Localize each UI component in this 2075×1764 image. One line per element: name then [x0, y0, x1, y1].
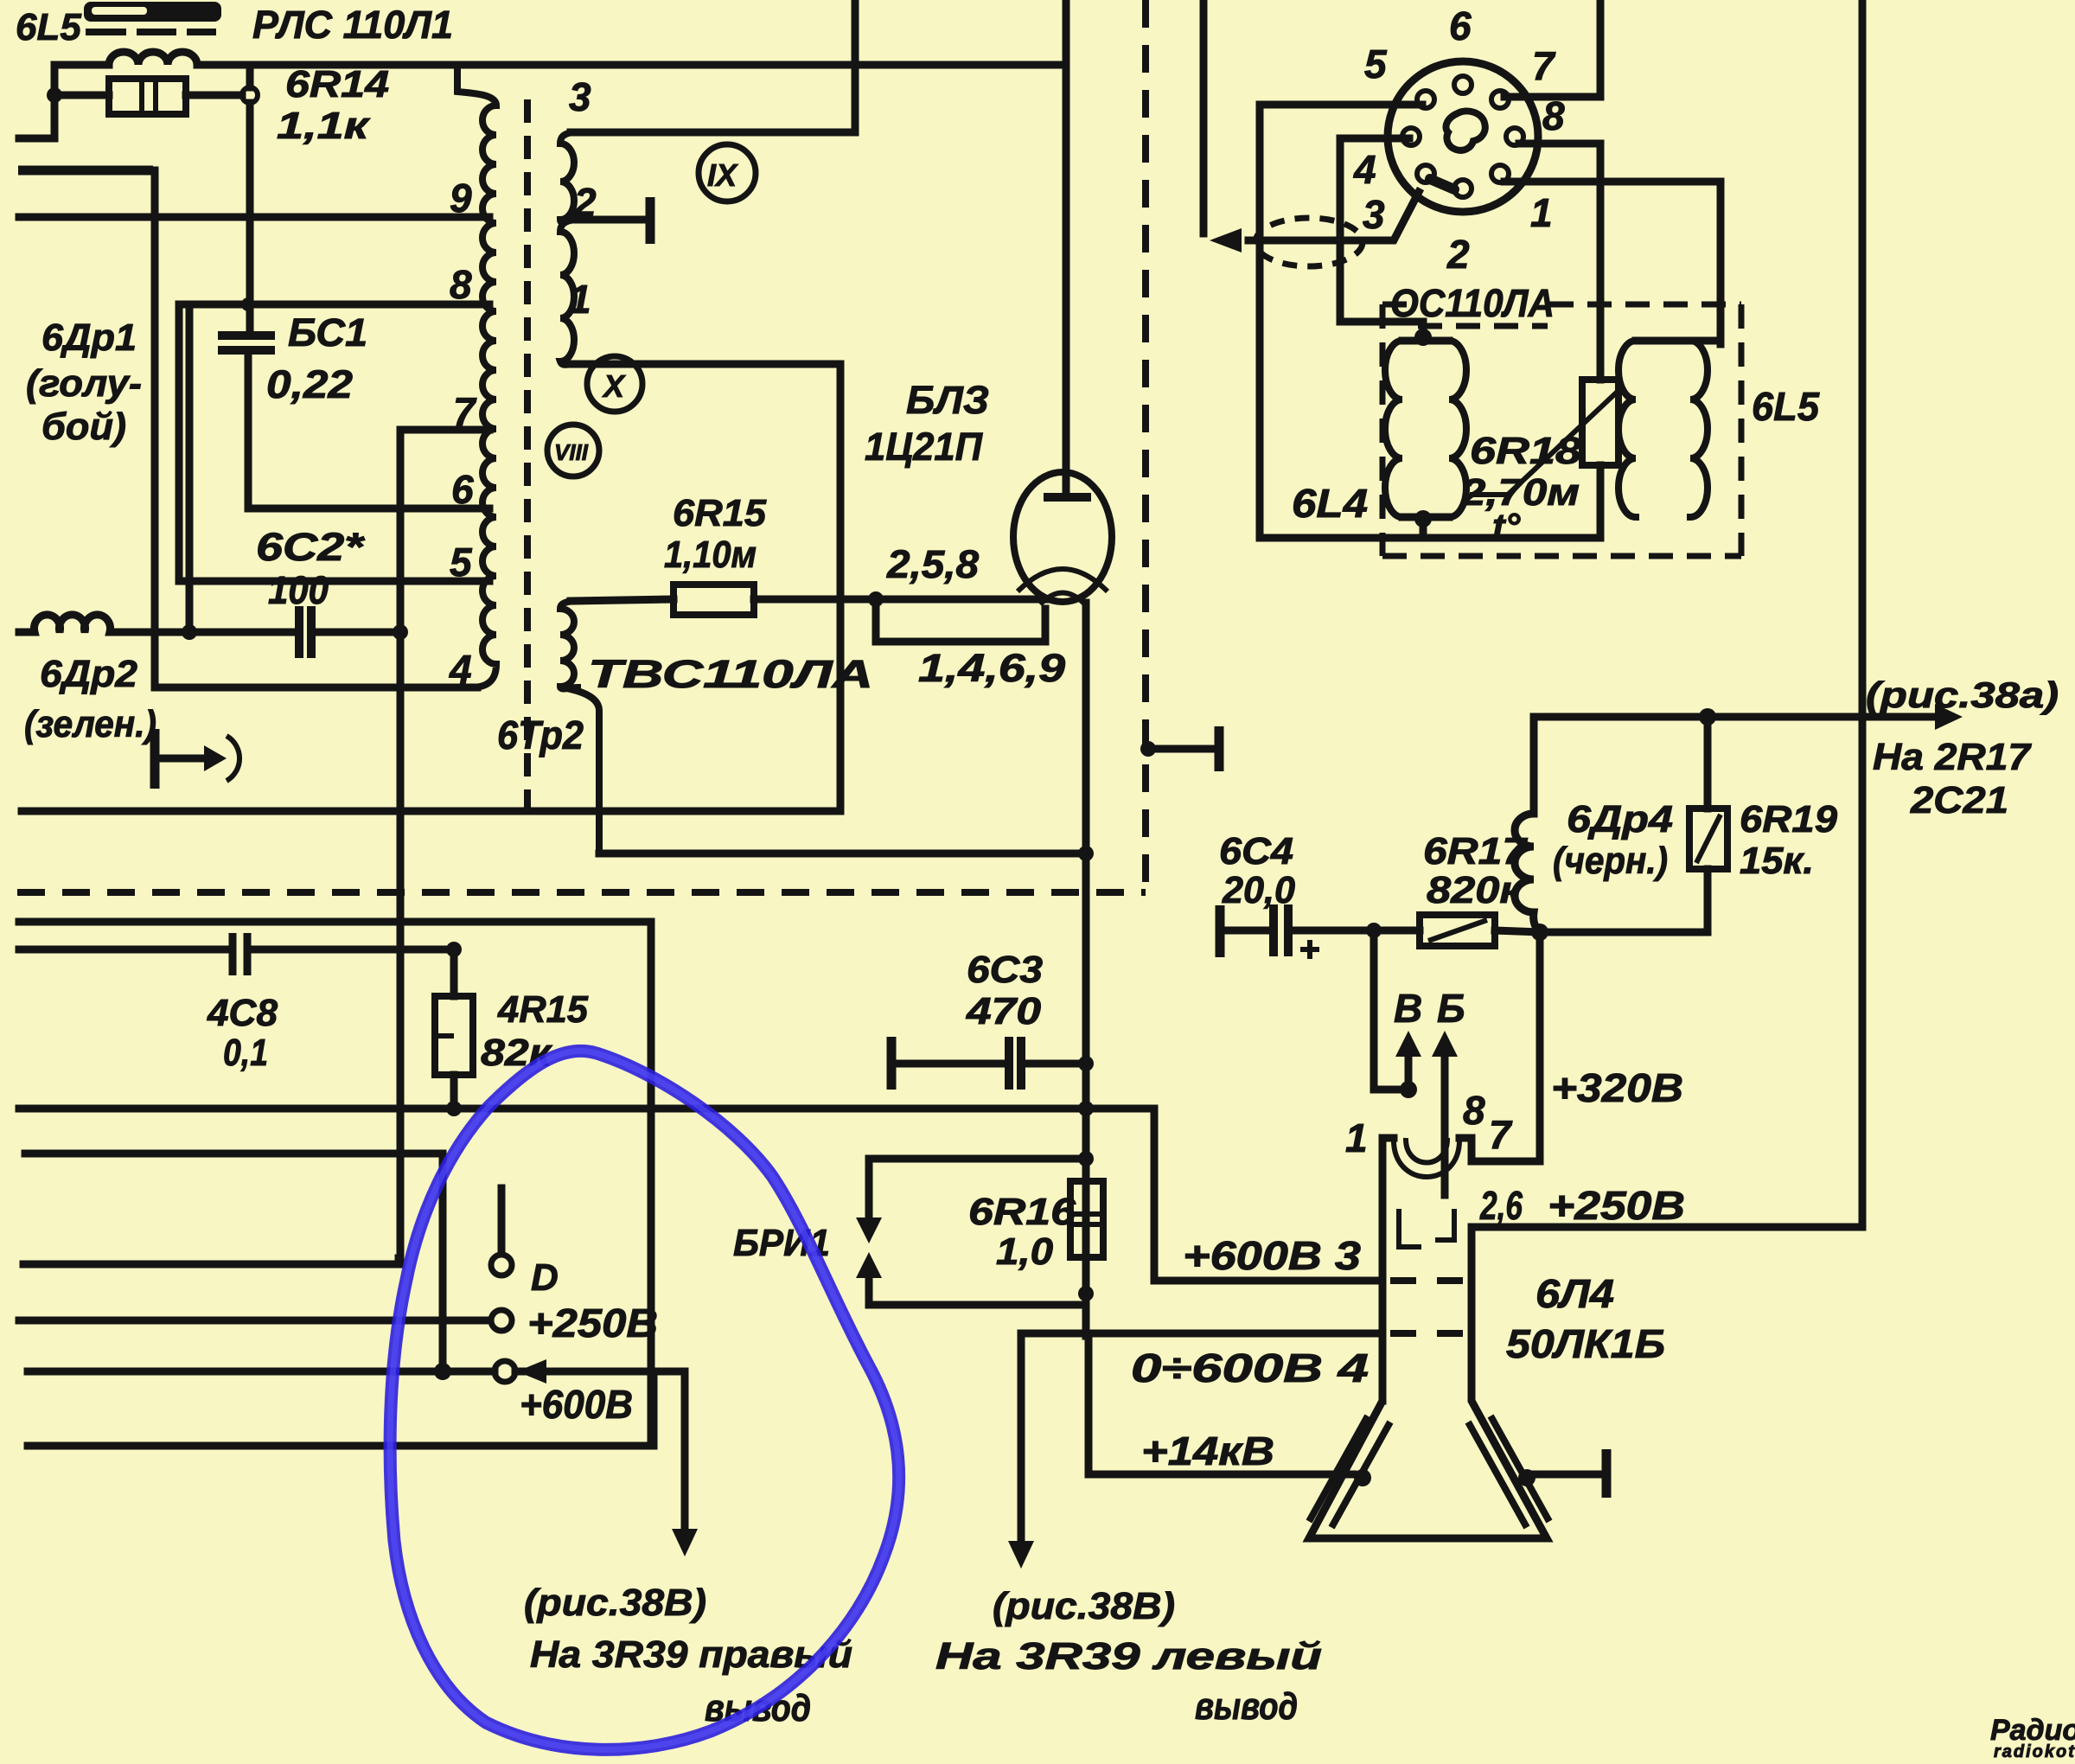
junction 6C1 top on y352	[241, 297, 255, 311]
svg-text:6Др1: 6Др1	[41, 316, 137, 359]
svg-text:4: 4	[449, 647, 472, 692]
svg-text:3: 3	[1363, 192, 1385, 237]
CRT screen slants right	[1470, 1419, 1548, 1524]
svg-text:6R15: 6R15	[673, 492, 767, 534]
svg-text:8: 8	[450, 262, 472, 307]
svg-text:50ЛК1Б: 50ЛК1Б	[1506, 1321, 1665, 1366]
CRT 6Л4 neck	[1309, 1138, 1547, 1538]
wire vertical x207 (pin8 loop)	[176, 304, 183, 581]
svg-text:5: 5	[450, 540, 473, 585]
wire pin1 right then down x972	[571, 364, 840, 811]
wire vertical x756 segment	[650, 1371, 658, 1446]
svg-text:9: 9	[450, 176, 472, 220]
svg-text:6L5: 6L5	[16, 6, 81, 48]
wire pin5 horizontal y672	[179, 578, 489, 585]
inductor 6Др2 coil on y731	[19, 615, 189, 632]
svg-text:20,0: 20,0	[1222, 869, 1295, 911]
svg-text:6С4: 6С4	[1219, 830, 1293, 872]
dashed separator vertical x1325 + horizontal y1032	[1142, 0, 1149, 892]
resistor 6R16 (on cathode line)	[1070, 1181, 1103, 1257]
wire long y1282 (+600V rail to CRT pin3)	[19, 1109, 1382, 1281]
wire pin2 stub and T terminal	[571, 197, 650, 244]
wire y1527 (+250V rail)	[19, 1317, 489, 1325]
transformer core (dashed)	[524, 99, 531, 817]
CRT anode dot left	[1354, 1469, 1371, 1486]
resistor 6R17 (adjustable)	[1420, 915, 1540, 946]
tube 6Л3 envelope	[1013, 472, 1112, 602]
wire pin5 left and down x1457	[1260, 105, 1422, 538]
svg-text:0÷600В 4: 0÷600В 4	[1131, 1345, 1369, 1390]
wire pin4 left and down x1550	[1340, 138, 1423, 341]
svg-text:В: В	[1394, 986, 1422, 1031]
CRT grid brackets	[1399, 1209, 1454, 1247]
spark gap БРИ1 loop	[856, 1159, 1086, 1305]
terminal +250В circle	[491, 1310, 512, 1331]
blue hand-drawn loop	[390, 1051, 899, 1749]
wire pin3 to top vertical	[571, 0, 855, 132]
wire long y1672	[28, 1442, 654, 1450]
junction cathode y987	[1078, 846, 1094, 861]
svg-text:1: 1	[1530, 190, 1553, 235]
svg-text:1,10м: 1,10м	[664, 534, 757, 576]
tube socket ОС110ЛА outer circle	[1388, 61, 1538, 212]
junction 4R15 top	[446, 942, 462, 957]
svg-text:+250В: +250В	[1548, 1183, 1685, 1228]
svg-text:вывод: вывод	[1195, 1685, 1298, 1728]
wire vertical x219 (6С2 branch)	[186, 306, 194, 632]
tube 6Л3 anode bar	[1044, 493, 1091, 502]
terminal T symbol on dashed line (right)	[1140, 726, 1219, 771]
wire +14kV box	[1089, 1333, 1353, 1474]
svg-text:+250В: +250В	[527, 1301, 658, 1345]
socket key boss	[1446, 111, 1484, 150]
svg-text:1: 1	[569, 277, 591, 322]
svg-text:6С2*: 6С2*	[256, 525, 366, 569]
CRT anode dot right + terminal	[1518, 1469, 1535, 1486]
CRT screen slants left	[1311, 1419, 1389, 1524]
svg-text:(рис.38а): (рис.38а)	[1866, 674, 2059, 715]
coil L (damper) top-left	[54, 52, 1066, 65]
svg-text:6Л4: 6Л4	[1535, 1271, 1614, 1316]
svg-text:Б: Б	[1437, 986, 1465, 1031]
socket pins (8 holes)	[1402, 76, 1523, 197]
svg-text:4С8: 4С8	[207, 992, 278, 1034]
svg-text:БС1: БС1	[288, 310, 367, 355]
svg-text:1,1к: 1,1к	[277, 105, 371, 147]
svg-text:IX: IX	[707, 157, 738, 193]
inductor 6L4	[1385, 341, 1466, 517]
svg-text:1Ц21П: 1Ц21П	[865, 425, 984, 469]
wire y622 (pin5 to 6R18 bottom)	[1260, 534, 1600, 542]
wire pin3 diagonal + arrow from x1392	[1248, 192, 1419, 240]
wire pin7 up	[1504, 0, 1600, 97]
wire pin6 horizontal y588	[248, 505, 489, 513]
svg-text:820к: 820к	[1427, 869, 1524, 911]
arrow into +600В terminal	[517, 1359, 546, 1384]
svg-text:6Тр2: 6Тр2	[497, 713, 584, 757]
wire y1462	[23, 1258, 399, 1264]
tube 6Л3 cathode arcs	[1018, 569, 1108, 591]
svg-text:3: 3	[569, 74, 591, 119]
wire y987 heater bottom to cathode	[599, 850, 1086, 858]
wire pin2,6 +250В rail	[1472, 1224, 1862, 1231]
svg-text:6С3: 6С3	[967, 949, 1043, 991]
arrow (рис.38а)	[1935, 704, 1963, 730]
wire stub left of node	[19, 65, 54, 138]
junction filament node	[868, 591, 884, 607]
wire y829 node rail	[1534, 713, 1935, 721]
svg-text:7: 7	[1489, 1112, 1513, 1157]
junction 6R19 top	[1699, 708, 1716, 725]
capacitor 4С8	[19, 933, 454, 975]
inductor 6L5 (top-left photo-negative bar)	[84, 2, 221, 35]
svg-text:РЛС 110Л1: РЛС 110Л1	[252, 3, 453, 47]
wire vertical x179 to transformer pin4 wire	[151, 170, 159, 687]
capacitor 6С2	[189, 606, 400, 658]
wire pin8 horizontal y352	[179, 301, 489, 309]
svg-text:4: 4	[1353, 147, 1376, 192]
junction 6С3 at cathode	[1078, 1056, 1094, 1071]
transformer secondary winding (pins 3-2-1)	[560, 132, 576, 365]
svg-text:VIII: VIII	[554, 439, 589, 465]
svg-text:(черн.): (черн.)	[1553, 840, 1668, 882]
svg-text:2С21: 2С21	[1910, 779, 2008, 821]
wire arrow shaft to рис.38В (right lead)	[681, 1371, 689, 1529]
junction 6L4 bottom	[1414, 510, 1432, 527]
svg-text:4R15: 4R15	[497, 988, 589, 1031]
svg-text:На 2R17: На 2R17	[1873, 736, 2033, 778]
capacitor 6С3 with T terminal	[891, 1037, 1086, 1090]
wire vertical x753	[648, 922, 655, 1446]
junction 6С4/6R17	[1366, 923, 1382, 938]
svg-text:+600В: +600В	[520, 1382, 633, 1427]
svg-text:470: 470	[966, 990, 1042, 1032]
wire pin7 horizontal y497	[400, 426, 489, 434]
svg-text:6Др2: 6Др2	[40, 653, 138, 695]
svg-text:t°: t°	[1492, 506, 1521, 548]
wire long horizontal y197	[18, 166, 153, 176]
svg-text:+320В: +320В	[1551, 1065, 1683, 1110]
svg-text:(рис.38В): (рис.38В)	[993, 1585, 1175, 1627]
wire node B up to top wire	[246, 65, 254, 87]
junction 6L4 top	[1414, 329, 1432, 346]
svg-text:1,4,6,9: 1,4,6,9	[918, 646, 1065, 690]
junction cathode y1282	[1078, 1101, 1094, 1116]
svg-text:БЛЗ: БЛЗ	[906, 378, 989, 422]
svg-text:6: 6	[451, 467, 474, 512]
terminal T symbol left (deflection tap)	[155, 729, 239, 789]
svg-text:radiokot.ru: radiokot.ru	[1994, 1742, 2075, 1761]
svg-text:X: X	[602, 368, 626, 404]
svg-text:+600В 3: +600В 3	[1183, 1233, 1361, 1278]
resistor 4R15	[435, 949, 473, 1109]
terminal +600В circle	[495, 1361, 515, 1382]
capacitor 6С1	[218, 336, 275, 508]
svg-text:5: 5	[1364, 42, 1388, 86]
svg-text:2: 2	[1446, 232, 1470, 277]
wire 6L4 bottom lead	[1420, 517, 1427, 538]
symbol IX circle	[699, 144, 756, 201]
wire pin1 right and down to 6L5	[1504, 182, 1721, 344]
svg-text:D: D	[531, 1256, 559, 1299]
CRT deflection arrows В Б	[1374, 1031, 1458, 1195]
svg-text:+14кВ: +14кВ	[1141, 1428, 1274, 1473]
wire pin4 horizontal y795	[155, 684, 477, 692]
junction 4R15 bottom	[446, 1101, 462, 1116]
svg-text:6R14: 6R14	[285, 63, 389, 105]
junction 6Др4/6R19 bottom node	[1531, 924, 1548, 941]
wire 6С4 node down to В arrow	[1370, 930, 1378, 1090]
svg-text:1: 1	[1345, 1115, 1368, 1160]
wire cathode down	[1082, 603, 1090, 1336]
svg-text:На 3R39 левый: На 3R39 левый	[935, 1635, 1322, 1678]
svg-text:бой): бой)	[41, 406, 126, 448]
wire pin4 feed + arrow branch	[1021, 1294, 1382, 1333]
wire right vertical x2154 from top	[1859, 0, 1867, 1227]
svg-text:1,0: 1,0	[996, 1230, 1054, 1273]
wire long y938	[22, 808, 840, 815]
wire node B down to 6C1	[246, 103, 254, 333]
svg-text:6R19: 6R19	[1740, 798, 1838, 840]
tube 6Л3 anode wire from top	[1063, 0, 1070, 494]
svg-text:15к.: 15к.	[1740, 840, 1814, 882]
wire pin8 right and down to 6R18	[1519, 144, 1600, 380]
svg-text:0,1: 0,1	[223, 1032, 268, 1074]
svg-text:6L5: 6L5	[1752, 384, 1820, 429]
resistor 6R19	[1689, 717, 1727, 932]
wire y1586 (+600V terminal rail)	[28, 1368, 685, 1376]
terminal D circle + stub	[491, 1188, 512, 1275]
resistor 6R14	[54, 79, 242, 114]
svg-text:8: 8	[1463, 1088, 1485, 1133]
svg-text:2: 2	[573, 180, 597, 225]
symbol X circle	[587, 356, 642, 412]
svg-text:6L4: 6L4	[1292, 481, 1368, 526]
wire pin7 +320В	[1472, 932, 1540, 1161]
svg-text:(зелен.): (зелен.)	[24, 703, 156, 745]
svg-text:6Др4: 6Др4	[1567, 798, 1673, 840]
wire long y1066	[19, 918, 651, 926]
inductor 6Др4	[1515, 717, 1540, 932]
symbol VIII circle	[547, 425, 599, 476]
wire vertical x463 (pin7 to bottom)	[397, 430, 405, 1264]
wire 6R19 bottom to node	[1540, 929, 1708, 936]
svg-text:(рис.38В): (рис.38В)	[524, 1582, 706, 1624]
thermistor 6R18	[1470, 380, 1624, 538]
junction 6Др2/6С2 left	[182, 624, 197, 640]
svg-text:2,6: 2,6	[1479, 1183, 1523, 1228]
junction 6С2 right on x463	[393, 624, 408, 640]
node B (6R14 right, small ring)	[242, 87, 258, 103]
svg-text:2,5,8: 2,5,8	[886, 542, 979, 586]
inductor 6L5	[1618, 341, 1721, 517]
wire arrow shaft к 3R39 левый	[1018, 1333, 1025, 1541]
svg-text:(голу-: (голу-	[26, 362, 142, 405]
svg-text:6: 6	[1449, 3, 1472, 48]
svg-text:0,22: 0,22	[266, 362, 353, 406]
svg-text:6R18: 6R18	[1470, 430, 1582, 472]
junction 6R16 bottom	[1078, 1286, 1094, 1301]
svg-text:6R16: 6R16	[968, 1191, 1076, 1233]
junction x512 on +600V	[434, 1363, 451, 1380]
capacitor 6С4 with T terminal	[1220, 904, 1420, 959]
transformer heater winding	[560, 601, 599, 853]
wire y1334 (D rail)	[25, 1154, 443, 1371]
dashed cable oval	[1255, 218, 1363, 266]
transformer 6Тр2 left (primary) winding	[457, 65, 496, 687]
svg-text:100: 100	[268, 568, 329, 612]
svg-text:7: 7	[1532, 43, 1556, 88]
wire long horizontal y251 to pin 9	[19, 214, 489, 221]
dashed unit box (6L4 6R18 6L5)	[1382, 304, 1741, 556]
svg-text:ТВС110ЛА: ТВС110ЛА	[588, 652, 873, 696]
socket pin2-3 link bar	[1430, 179, 1454, 189]
node A (6R14 left)	[47, 87, 62, 103]
resistor 6R15	[571, 585, 1045, 615]
junction 6R16 top	[1078, 1151, 1094, 1166]
wire filament loop 1,4,6,9	[876, 599, 1045, 642]
CRT inner dashes	[1390, 1277, 1465, 1284]
